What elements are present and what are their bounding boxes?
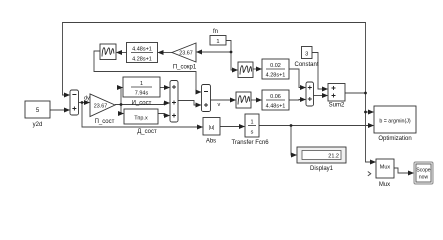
wire iconA to TF3 [253,68,261,70]
constant "3" [294,47,318,69]
gain П_сокр1 23.67 (flipped) [172,43,197,71]
wire TF4 to sum5 bottom plus [289,99,305,102]
wire vertical distribution line down to Mux [366,93,376,162]
sum3 (minus plus) [202,85,211,112]
svg-text:Scope: Scope [416,168,430,174]
block Tpr.x (Д component) [124,109,158,135]
junction dots [81,51,367,127]
wire junction down to white-noise iconA [231,52,237,70]
mux block [376,159,394,188]
white noise iconA [238,62,253,78]
scope block [414,162,433,184]
wire Constant3 down to Sum2 top input [312,53,327,90]
svg-text:Constant: Constant [294,62,318,68]
svg-text:b = argmin(J): b = argmin(J) [379,119,411,125]
svg-text:23.67: 23.67 [94,103,108,109]
sum2 block [328,84,345,109]
svg-text:s: s [251,130,254,136]
wire sum4 output to sum3 plus [178,101,201,106]
svg-text:Display1: Display1 [310,166,334,172]
Mux unconnected input2 chevron [368,172,371,176]
transfer fcn TF4 0.06/4.48s+1 [262,90,289,110]
white noise iconB [236,92,251,108]
svg-text:0.02: 0.02 [270,63,281,69]
svg-text:3: 3 [305,52,308,58]
svg-text:4.48s+1: 4.48s+1 [266,104,286,110]
transfer fcn TF3 0.02/4.28s+1 [262,59,289,79]
wire sum5 output to Sum2 [314,95,328,97]
wire gain П_сокр1 to TF1 (leftward) [158,52,172,54]
wire gain2 branch down to Tpr.x [121,105,123,114]
svg-text:y2d: y2d [33,122,43,128]
svg-text:Д_сост: Д_сост [137,129,157,135]
wire icon1 output loop down into sum3 minus [94,51,201,92]
wire branch down to Display1 [291,126,296,156]
svg-text:4.28s+1: 4.28s+1 [132,57,152,63]
wire main feedback top loop to sum1 minus [63,23,366,96]
svg-text:Тпр.х: Тпр.х [134,116,148,122]
svg-text:dy: dy [84,96,90,102]
white noise icon1 [100,44,116,60]
svg-text:21.2: 21.2 [328,154,339,160]
svg-text:Abs: Abs [206,139,216,145]
optimization block [374,106,416,142]
svg-text:23.67: 23.67 [179,51,193,57]
sum4 (three plus) [170,81,178,123]
svg-text:Mux: Mux [379,182,390,188]
svg-text:4.28s+1: 4.28s+1 [266,73,286,79]
wire iconB to TF4 [251,99,261,101]
wire Tpr.x to sum4 bottom plus [158,114,169,116]
svg-text:И_сост: И_сост [132,101,152,107]
svg-text:1: 1 [250,120,253,126]
abs block |u| [203,118,220,145]
sum5 (plus plus) [306,82,314,106]
transfer fcn6 1/s [231,114,269,146]
transfer fcn TF1 4.48s+1/4.28s+1 (flipped) [127,43,158,63]
wire sum3 output v to iconB [211,99,236,101]
svg-text:Sum2: Sum2 [329,103,345,109]
svg-text:Optimization: Optimization [378,136,411,142]
svg-text:1: 1 [216,39,219,45]
svg-text:Transfer Fcn6: Transfer Fcn6 [231,140,269,146]
wire Abs to TransferFcn6 [220,126,244,128]
display1 block [297,147,346,172]
svg-text:1: 1 [140,81,143,87]
wire sum1 output dy to gain2 [79,102,90,104]
svg-text:v: v [218,102,221,108]
constant fn "1" [210,29,226,45]
wire TF3 to sum5 top plus [289,69,305,88]
gain2 П_сост 23.67 [90,94,115,125]
transfer fcn TF2 1/7.94s [123,77,160,107]
svg-text:4.48s+1: 4.48s+1 [132,47,152,53]
wire junction to gain П_сокр1 (flipped, leftward) [197,51,231,53]
wire gain2 output to sum4 middle plus [115,103,169,105]
sum1 (minus plus) [70,90,79,115]
svg-text:П_сост: П_сост [95,119,115,125]
wire to Optimization input1 [366,111,374,113]
wire TF1 to icon1 (leftward) [117,52,127,54]
svg-text:7.94s: 7.94s [135,91,149,97]
svg-text:Mux: Mux [380,165,391,171]
wire yzd to sum1 plus [50,109,69,111]
svg-text:now: now [419,175,429,181]
wire gain2 branch up to TF2 [121,88,122,105]
constant yzd "5" [25,101,50,128]
wire TF2 to sum4 top plus [160,87,169,89]
wire TransferFcn6 long output to Optimization input2 [259,125,374,127]
svg-text:fn: fn [213,29,218,35]
svg-text:0.06: 0.06 [270,94,281,100]
wire fn constant output down to junction [226,41,231,53]
wire dy branch down to Abs [82,103,202,128]
svg-text:|u|: |u| [209,125,215,131]
svg-text:П_сокр1: П_сокр1 [173,65,197,71]
wire Mux output step to Scope [394,168,413,173]
